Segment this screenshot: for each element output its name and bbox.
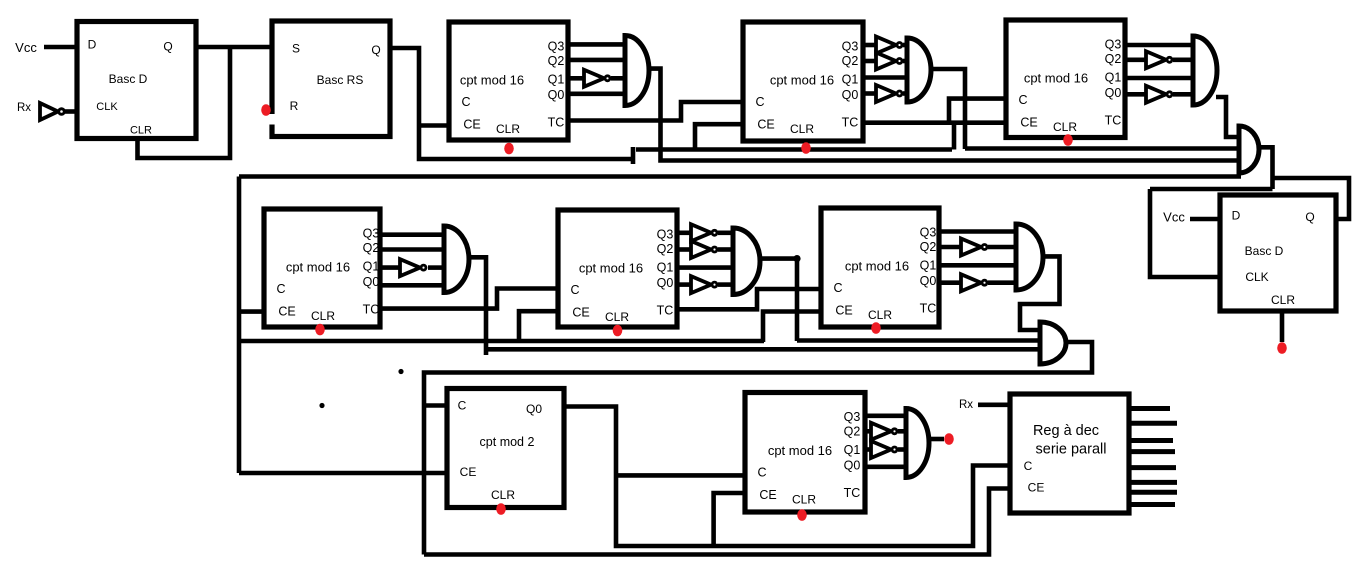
- svg-text:Q: Q: [371, 43, 380, 57]
- svg-text:Q: Q: [1305, 210, 1314, 224]
- svg-text:CLR: CLR: [311, 309, 335, 323]
- svg-text:Q0: Q0: [657, 276, 674, 290]
- svg-text:C: C: [461, 95, 470, 109]
- svg-text:Q0: Q0: [1105, 86, 1122, 100]
- svg-text:CLR: CLR: [790, 122, 814, 136]
- svg-text:Q: Q: [163, 40, 172, 54]
- svg-text:TC: TC: [842, 115, 859, 129]
- svg-text:CE: CE: [463, 117, 480, 131]
- svg-text:TC: TC: [657, 303, 674, 317]
- svg-text:TC: TC: [548, 115, 565, 129]
- svg-text:cpt mod 2: cpt mod 2: [480, 435, 535, 449]
- svg-text:Q3: Q3: [844, 410, 861, 424]
- svg-text:C: C: [757, 465, 766, 479]
- svg-text:CE: CE: [1020, 115, 1037, 129]
- svg-text:Q0: Q0: [920, 274, 937, 288]
- svg-text:cpt mod 16: cpt mod 16: [845, 259, 909, 274]
- svg-text:serie parall: serie parall: [1036, 442, 1107, 458]
- svg-text:Rx: Rx: [959, 399, 973, 411]
- svg-text:C: C: [1018, 93, 1027, 107]
- svg-text:TC: TC: [1105, 113, 1122, 127]
- svg-text:Q1: Q1: [548, 72, 565, 86]
- svg-text:Q2: Q2: [548, 54, 565, 68]
- svg-text:Basc RS: Basc RS: [317, 73, 364, 87]
- svg-text:Rx: Rx: [17, 102, 31, 114]
- svg-text:R: R: [290, 99, 299, 113]
- svg-text:CLR: CLR: [1053, 120, 1077, 134]
- svg-text:C: C: [570, 283, 579, 297]
- svg-text:Q0: Q0: [844, 458, 861, 472]
- svg-text:CE: CE: [1028, 481, 1045, 495]
- svg-text:CE: CE: [759, 488, 776, 502]
- svg-text:cpt mod 16: cpt mod 16: [286, 260, 350, 275]
- svg-text:CLR: CLR: [605, 310, 629, 324]
- svg-text:C: C: [755, 95, 764, 109]
- svg-text:Q1: Q1: [363, 259, 380, 273]
- svg-text:Q2: Q2: [1105, 52, 1122, 66]
- svg-text:Basc D: Basc D: [1245, 244, 1284, 258]
- svg-text:D: D: [88, 38, 97, 52]
- svg-text:Q2: Q2: [920, 240, 937, 254]
- svg-text:cpt mod 16: cpt mod 16: [768, 443, 832, 458]
- svg-text:CE: CE: [835, 303, 852, 317]
- svg-text:Q0: Q0: [526, 402, 542, 416]
- svg-text:TC: TC: [844, 486, 861, 500]
- svg-text:CLR: CLR: [1271, 293, 1295, 307]
- svg-text:CE: CE: [278, 304, 295, 318]
- svg-text:Q1: Q1: [920, 258, 937, 272]
- svg-text:Q3: Q3: [363, 226, 380, 240]
- svg-text:Q0: Q0: [842, 88, 859, 102]
- svg-text:cpt mod 16: cpt mod 16: [1024, 71, 1088, 86]
- svg-text:cpt mod 16: cpt mod 16: [770, 73, 834, 88]
- svg-text:CE: CE: [460, 465, 477, 479]
- svg-text:Q2: Q2: [363, 241, 380, 255]
- svg-text:CLR: CLR: [491, 488, 515, 502]
- svg-text:CLK: CLK: [96, 101, 118, 113]
- svg-text:CLR: CLR: [792, 493, 816, 507]
- svg-text:CLR: CLR: [130, 124, 152, 136]
- svg-text:Vcc: Vcc: [1163, 210, 1185, 225]
- svg-text:CE: CE: [757, 117, 774, 131]
- svg-text:Q1: Q1: [842, 72, 859, 86]
- svg-text:CLR: CLR: [496, 122, 520, 136]
- svg-text:D: D: [1232, 209, 1241, 223]
- svg-text:C: C: [1024, 459, 1033, 473]
- svg-text:CLK: CLK: [1245, 270, 1268, 284]
- svg-text:Q0: Q0: [548, 88, 565, 102]
- svg-text:CLR: CLR: [868, 308, 892, 322]
- svg-text:Q1: Q1: [844, 443, 861, 457]
- svg-text:cpt mod 16: cpt mod 16: [460, 73, 524, 88]
- svg-text:Q3: Q3: [920, 225, 937, 239]
- svg-text:C: C: [833, 281, 842, 295]
- svg-text:C: C: [458, 399, 467, 413]
- svg-text:Q3: Q3: [548, 39, 565, 53]
- svg-text:C: C: [276, 282, 285, 296]
- svg-text:cpt mod 16: cpt mod 16: [579, 261, 643, 276]
- svg-text:Q0: Q0: [363, 275, 380, 289]
- svg-text:Basc D: Basc D: [109, 72, 148, 86]
- svg-text:Q3: Q3: [1105, 37, 1122, 51]
- svg-text:Q3: Q3: [842, 39, 859, 53]
- svg-text:Q2: Q2: [844, 424, 861, 438]
- svg-text:CE: CE: [572, 305, 589, 319]
- svg-text:Reg à dec: Reg à dec: [1033, 423, 1099, 439]
- svg-text:Q1: Q1: [1105, 70, 1122, 84]
- svg-text:Q3: Q3: [657, 227, 674, 241]
- svg-text:Q2: Q2: [657, 242, 674, 256]
- svg-text:Vcc: Vcc: [15, 40, 37, 55]
- svg-text:S: S: [292, 42, 300, 56]
- svg-text:TC: TC: [363, 302, 380, 316]
- svg-text:TC: TC: [920, 301, 937, 315]
- svg-text:Q2: Q2: [842, 54, 859, 68]
- svg-text:Q1: Q1: [657, 260, 674, 274]
